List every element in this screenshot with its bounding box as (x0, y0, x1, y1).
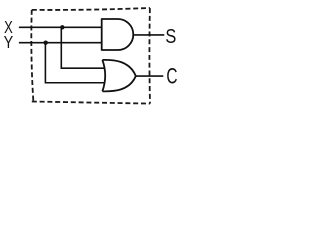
junction dot on X wire (60, 25, 64, 29)
svg-text:Y: Y (4, 32, 14, 52)
dashed enclosure border (31, 8, 150, 104)
and-gate U1 (102, 19, 134, 50)
junction dot on Y wire (44, 41, 48, 45)
wire Y branch to OR gate bottom input (45, 43, 104, 83)
or-gate U2 (102, 60, 135, 91)
wire S output (133, 34, 164, 36)
wire C output (136, 75, 164, 77)
wire Y input (19, 42, 102, 44)
svg-text:C: C (166, 65, 177, 89)
wire X branch to OR gate top input (61, 27, 104, 68)
svg-text:S: S (165, 24, 176, 47)
wire X input (19, 26, 102, 28)
